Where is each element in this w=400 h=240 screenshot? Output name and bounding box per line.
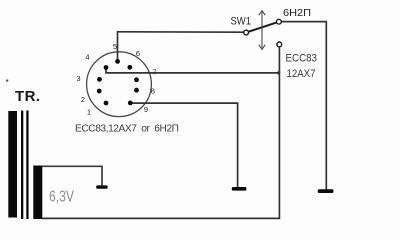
svg-text:9: 9 (144, 105, 148, 114)
pin 2 (97, 89, 102, 94)
wire secondary bottom to SW1 bottom contact (42, 47, 279, 219)
svg-text:7: 7 (152, 67, 156, 76)
svg-text:ECC83,12AX7 or 6Н2П: ECC83,12AX7 or 6Н2П (75, 124, 179, 135)
pin 6 (127, 65, 132, 70)
svg-text:6Н2П: 6Н2П (283, 7, 311, 19)
tube socket V1 (87, 52, 152, 117)
switch SW1 common contact (244, 30, 249, 35)
svg-text:6: 6 (136, 49, 140, 58)
pin 9 (128, 101, 133, 106)
switch SW1 top contact (277, 19, 282, 24)
junction ECC83 rail (277, 71, 280, 74)
switch SW1 bottom contact (277, 42, 282, 47)
svg-text:ECC83: ECC83 (286, 53, 318, 65)
svg-text:1: 1 (87, 107, 91, 116)
stray ink speck (6, 80, 8, 82)
transformer TR secondary winding (33, 166, 42, 220)
svg-text:TR.: TR. (15, 88, 40, 105)
ground (232, 187, 247, 191)
transformer TR primary winding (8, 111, 17, 218)
svg-text:4: 4 (85, 53, 89, 62)
pin 5 (115, 59, 120, 64)
ground (318, 189, 334, 193)
wire SW1 top contact to ground (6H2P position) (281, 22, 326, 190)
ground (96, 185, 107, 188)
svg-text:8: 8 (151, 86, 155, 95)
pin 8 (134, 88, 139, 93)
switch SW1 lever (248, 22, 276, 31)
pin 1 (104, 101, 109, 106)
pin 4 (104, 65, 109, 70)
switch SW1 throw arrow (259, 11, 265, 50)
wire pin 5 to SW1 common (118, 32, 244, 62)
svg-text:12AX7: 12AX7 (287, 68, 316, 80)
svg-text:5: 5 (113, 42, 117, 51)
wire secondary top to ground (42, 166, 102, 185)
wire pin 4 to ECC83 rail (106, 68, 279, 73)
svg-text:SW1: SW1 (231, 15, 252, 27)
pin 7 (134, 77, 139, 82)
pin 3 (97, 77, 102, 82)
transformer TR core (21, 111, 29, 220)
wire pin 9 to ground (130, 103, 237, 187)
svg-text:2: 2 (81, 95, 85, 104)
svg-text:3: 3 (76, 74, 80, 83)
svg-text:6,3V: 6,3V (49, 189, 75, 206)
